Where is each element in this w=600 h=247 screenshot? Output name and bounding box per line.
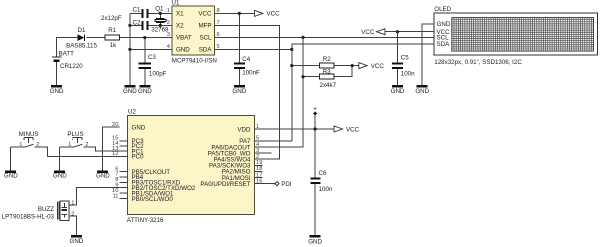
wire R1 to VBAT pin 3 of U1 — [120, 37, 173, 39]
svg-text:C4: C4 — [242, 56, 250, 63]
ground (C6) — [308, 235, 322, 246]
wire buzzer pin2 to GND — [69, 216, 76, 235]
wire OLED VCC line — [385, 31, 434, 33]
svg-text:PA0/UPDI/RESET: PA0/UPDI/RESET — [200, 181, 250, 188]
svg-text:R2: R2 — [323, 56, 331, 63]
wire X1 net C1 to U1 pin 1 — [149, 12, 172, 14]
svg-text:11: 11 — [112, 193, 118, 199]
svg-text:VCC: VCC — [361, 29, 375, 36]
node SCL riser — [301, 36, 304, 39]
wire R2 right to vcc — [334, 65, 352, 67]
wire C3 to GND — [144, 69, 146, 85]
svg-text:C1: C1 — [133, 6, 141, 13]
ground (C3) — [138, 85, 152, 95]
wire battery to diode — [57, 38, 78, 57]
switch MINUS — [19, 131, 40, 148]
ground (C1 C2 bus) — [123, 85, 137, 95]
svg-text:C2: C2 — [133, 19, 141, 26]
svg-text:GND: GND — [138, 88, 152, 95]
svg-text:VDD: VDD — [237, 126, 251, 133]
svg-text:2: 2 — [36, 142, 39, 148]
svg-text:BUZZ: BUZZ — [38, 206, 54, 213]
svg-text:2: 2 — [256, 154, 259, 160]
PDI terminal — [275, 181, 292, 188]
svg-text:2: 2 — [71, 212, 74, 218]
svg-text:GND: GND — [232, 88, 246, 95]
svg-text:LPT9018BS-HL-03: LPT9018BS-HL-03 — [2, 214, 55, 221]
switch PLUS — [67, 131, 88, 148]
wire R2R3 to VCC arrow — [352, 65, 359, 67]
IC U2 ATTINY-3216 — [112, 109, 262, 225]
svg-text:5: 5 — [217, 44, 220, 50]
svg-text:PLUS: PLUS — [67, 131, 83, 138]
svg-text:8: 8 — [217, 8, 220, 14]
wire X2 net C2 to U1 pin 2 — [149, 24, 172, 26]
battery BATT CR1220 — [52, 51, 83, 70]
svg-text:GND: GND — [123, 88, 137, 95]
node OLED VCC/C5 — [396, 30, 399, 33]
svg-text:1: 1 — [19, 142, 22, 148]
junction dots — [128, 12, 399, 131]
wire PLUS switch to GND — [59, 147, 61, 170]
svg-text:GND: GND — [176, 47, 190, 54]
svg-text:GND: GND — [70, 238, 84, 245]
wire SDA net U1 pin5 — [215, 48, 292, 50]
ground (U2 pin 20) — [96, 170, 110, 179]
svg-text:100pF: 100pF — [149, 71, 167, 78]
svg-text:2x12pF: 2x12pF — [101, 15, 122, 22]
OLED display module — [434, 6, 598, 66]
VCC supply arrow (OLED, pointing left) — [361, 29, 385, 36]
VCC supply arrow (U2 VDD) — [334, 126, 360, 133]
wire PLUS to U2 PC1 — [84, 147, 128, 151]
wire battery minus to GND — [56, 62, 58, 85]
wire buzzer pin1 to U2 PB2 — [69, 188, 127, 205]
node bus/C2 — [128, 24, 131, 27]
svg-text:128x32px, 0.91", SSD1306, I2C: 128x32px, 0.91", SSD1306, I2C — [434, 59, 522, 66]
node VDD/C6 — [314, 127, 317, 130]
svg-text:R1: R1 — [108, 27, 116, 34]
op IC U1 MCP79410 — [167, 0, 220, 64]
svg-text:Q1: Q1 — [155, 5, 164, 12]
svg-text:+: + — [313, 106, 317, 113]
capacitor C4 100nF — [234, 56, 260, 76]
wire R2 left — [292, 65, 320, 67]
svg-text:PDI: PDI — [281, 181, 292, 188]
wire R3 right joins R2 — [334, 66, 352, 77]
wire MFP net U1 pin7 to U2 PA4 — [215, 25, 280, 159]
svg-text:VCC: VCC — [346, 126, 360, 133]
wire MINUS switch to GND — [10, 147, 12, 170]
svg-text:SDA: SDA — [437, 41, 451, 48]
svg-text:2: 2 — [85, 142, 88, 148]
node VBAT/C3 — [143, 36, 146, 39]
svg-text:MFP: MFP — [198, 23, 211, 30]
svg-text:X1: X1 — [176, 11, 184, 18]
wire U2 VDD to VCC arrow — [255, 128, 335, 130]
resistor R2 — [320, 56, 334, 68]
svg-text:ATTINY-3216: ATTINY-3216 — [127, 217, 164, 224]
svg-text:C3: C3 — [148, 54, 156, 61]
svg-text:PB0/SCL/WO0: PB0/SCL/WO0 — [132, 196, 174, 203]
wire C5 branch — [397, 32, 399, 85]
svg-text:VCC: VCC — [198, 11, 212, 18]
node SDA/R2 — [290, 64, 293, 67]
pin 3 stub PA5 — [255, 152, 272, 154]
svg-text:CR1220: CR1220 — [60, 63, 83, 70]
svg-text:MINUS: MINUS — [19, 131, 39, 138]
svg-text:100n: 100n — [401, 71, 415, 78]
svg-text:1: 1 — [167, 8, 170, 14]
resistor R3 2x4k7 — [320, 69, 337, 89]
svg-text:U1: U1 — [172, 0, 180, 7]
U2 left pin stubs — [120, 141, 128, 199]
capacitor C2 — [101, 15, 149, 30]
VCC supply arrow (R2 R3) — [359, 63, 385, 70]
svg-text:GND: GND — [132, 125, 146, 132]
capacitor C5 100n — [392, 54, 415, 77]
wire SDA riser and OLED SDA — [292, 44, 434, 141]
svg-text:GND: GND — [391, 88, 405, 95]
svg-text:GND: GND — [415, 88, 429, 95]
wire R3 left — [303, 76, 320, 78]
svg-text:BAS85.115: BAS85.115 — [66, 43, 97, 50]
svg-text:1k: 1k — [110, 42, 117, 49]
wire C6 branch — [314, 129, 316, 235]
VCC supply arrow (U1 pin 8) — [255, 10, 281, 17]
svg-text:5: 5 — [256, 136, 259, 142]
svg-text:X2: X2 — [176, 23, 184, 30]
capacitor C1 — [133, 6, 149, 18]
wire plus terminal to VDD — [314, 115, 316, 129]
svg-text:19: 19 — [256, 160, 262, 166]
diode D1 BAS85.115 — [66, 27, 97, 49]
svg-text:12: 12 — [112, 151, 118, 157]
svg-text:SDA: SDA — [199, 47, 213, 54]
wire PLUS left lead — [60, 146, 74, 148]
resistor R1 1k — [105, 27, 120, 49]
node X2/Q1 — [159, 24, 162, 27]
node R2/R3 join — [351, 64, 354, 67]
wire C3 branch — [144, 38, 146, 63]
svg-text:OLED: OLED — [434, 6, 451, 13]
svg-text:18: 18 — [256, 166, 262, 172]
wire U1 GND pin 4 — [130, 48, 172, 50]
wire MINUS left lead — [11, 146, 25, 148]
ground (PLUS) — [53, 170, 67, 179]
svg-text:1: 1 — [68, 142, 71, 148]
svg-text:17: 17 — [256, 172, 262, 178]
node SCL/R3 — [301, 75, 304, 78]
capacitor C6 100n — [310, 170, 332, 193]
svg-text:U2: U2 — [128, 109, 136, 116]
wire SCL net U1 pin6 to OLED — [215, 36, 434, 38]
node VCC/C4 — [238, 12, 241, 15]
svg-text:GND: GND — [308, 239, 322, 246]
svg-text:2: 2 — [167, 20, 170, 26]
svg-text:SCL: SCL — [199, 35, 212, 42]
svg-text:100nF: 100nF — [242, 70, 260, 77]
svg-text:D1: D1 — [78, 27, 86, 34]
wire U1 VCC pin 8 to arrow — [215, 12, 255, 14]
svg-text:7: 7 — [217, 20, 220, 26]
svg-text:1: 1 — [256, 124, 259, 130]
wire SCL riser to U2 PA6 — [255, 37, 304, 147]
svg-text:1: 1 — [71, 201, 74, 207]
svg-text:16: 16 — [256, 178, 262, 184]
crystal Q1 32768 — [151, 5, 169, 33]
wire OLED GND drop — [422, 24, 434, 85]
capacitor C3 100pF — [138, 54, 166, 78]
svg-text:3: 3 — [167, 32, 170, 38]
wire PDI — [255, 183, 276, 185]
svg-text:GND: GND — [96, 173, 110, 180]
svg-text:VBAT: VBAT — [176, 35, 192, 42]
wire SDA riser to U2 PA7 — [255, 140, 292, 142]
ground (C4) — [232, 85, 246, 95]
svg-text:6: 6 — [217, 32, 220, 38]
wire gnd bus left of C1 C2 — [130, 13, 142, 84]
svg-text:MCP79410-I/SN: MCP79410-I/SN — [172, 57, 217, 64]
svg-text:C5: C5 — [401, 54, 409, 61]
wire diode to R1 — [86, 37, 105, 39]
svg-text:GND: GND — [53, 173, 67, 180]
node X1/Q1 — [159, 12, 162, 15]
svg-text:GND: GND — [4, 173, 18, 180]
wire crystal leads — [159, 13, 161, 25]
wire U2 GND pin20 — [103, 127, 120, 170]
svg-text:R3: R3 — [323, 69, 331, 76]
svg-text:C6: C6 — [319, 170, 327, 177]
svg-text:2x4k7: 2x4k7 — [320, 82, 337, 89]
ground (MINUS) — [4, 170, 18, 179]
node SDA riser — [290, 48, 293, 51]
U2 right pin stubs — [255, 141, 263, 178]
svg-text:100n: 100n — [319, 186, 333, 193]
node bus/GND pin4 — [128, 48, 131, 51]
svg-text:VCC: VCC — [267, 11, 281, 18]
wire C4 branch — [238, 13, 240, 84]
buzzer BUZZ LPT9018BS-HL-03 — [2, 201, 75, 221]
svg-text:20: 20 — [112, 122, 118, 128]
svg-text:PC0: PC0 — [132, 154, 145, 161]
ground (OLED) — [415, 85, 429, 95]
ground (C5) — [391, 85, 405, 95]
svg-text:BATT: BATT — [59, 51, 75, 58]
ground (buzzer) — [70, 235, 84, 245]
svg-text:GND: GND — [50, 88, 64, 95]
svg-text:VCC: VCC — [371, 63, 385, 70]
ground (battery) — [50, 85, 64, 95]
wire MINUS to U2 PC0 — [35, 147, 128, 156]
svg-text:GND: GND — [437, 21, 451, 28]
plus supply terminal — [313, 106, 317, 116]
